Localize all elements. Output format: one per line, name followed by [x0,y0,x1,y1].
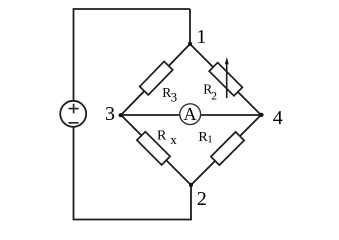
svg-text:x: x [170,132,177,147]
svg-text:2: 2 [211,91,217,103]
svg-text:3: 3 [105,103,115,125]
svg-text:1: 1 [196,26,206,48]
svg-text:A: A [184,104,197,124]
svg-text:R: R [157,129,167,144]
svg-text:3: 3 [171,90,178,105]
svg-text:1: 1 [207,134,213,146]
svg-text:2: 2 [197,188,207,210]
svg-text:4: 4 [273,107,283,129]
